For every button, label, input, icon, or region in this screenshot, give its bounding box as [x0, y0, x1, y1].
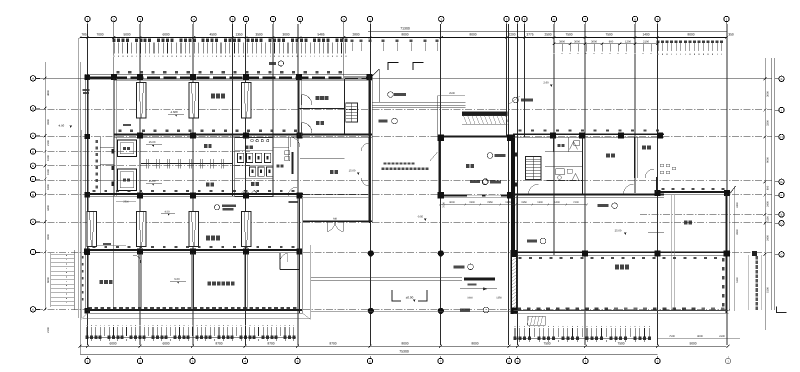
corridor arrows and marks — [146, 144, 162, 146]
svg-text:8000: 8000 — [401, 341, 408, 345]
svg-text:2100: 2100 — [47, 327, 50, 333]
left dimension boundary line — [79, 62, 81, 354]
grid axis vertical (partial) x=113.75 — [113, 24, 115, 310]
top dimension line — [80, 37, 727, 39]
column on dim line — [752, 251, 757, 256]
column at west colonnade y=252.4 — [84, 250, 90, 255]
svg-text:9000: 9000 — [689, 341, 696, 345]
conveyor rail — [141, 163, 233, 165]
stair B — [526, 157, 542, 181]
hall1 level mark — [168, 114, 184, 116]
svg-text:1500: 1500 — [47, 169, 50, 175]
annotation in hall2 — [214, 205, 219, 210]
grid axis vertical x=508.5 — [508, 24, 510, 345]
svg-text:H: H — [32, 220, 34, 224]
column — [550, 133, 556, 139]
door swing marks on corridor wall — [241, 190, 247, 193]
svg-text:1100: 1100 — [767, 216, 770, 222]
svg-text:6000: 6000 — [162, 32, 169, 36]
svg-text:2100: 2100 — [719, 335, 725, 338]
door arc — [290, 137, 300, 147]
plaza walkway lines — [311, 277, 462, 279]
svg-text:E: E — [781, 213, 783, 217]
CI marks above mid wall — [519, 129, 522, 131]
detail mark — [278, 61, 283, 66]
svg-text:25.00: 25.00 — [615, 230, 622, 233]
svg-text:7500: 7500 — [565, 32, 572, 36]
grid axis vertical x=657.5 — [657, 24, 659, 345]
NE chamfer of C — [729, 186, 736, 195]
storage south wall — [513, 310, 728, 312]
north wall columns — [111, 74, 117, 80]
svg-text:±0.00: ±0.00 — [406, 296, 414, 300]
room label fuwutai — [316, 96, 320, 100]
bottom grid bubbles row — [85, 358, 90, 363]
room label — [123, 178, 126, 181]
svg-text:9000: 9000 — [697, 335, 703, 338]
svg-text:2400: 2400 — [736, 202, 739, 208]
grid axis vertical x=727 — [726, 24, 728, 345]
column — [724, 190, 730, 196]
left secondary vertical line — [78, 38, 80, 318]
mid section north wall — [513, 133, 664, 135]
grid axis horizontal y=180.0 — [36, 179, 772, 181]
room label shoufajian — [99, 280, 103, 284]
pavilion north wall — [438, 136, 513, 138]
dim row below mid section — [440, 204, 587, 206]
grid axis vertical x=585 — [584, 24, 586, 345]
top grid bubbles row — [85, 16, 90, 21]
grid axis horizontal y=78.5 — [36, 78, 772, 80]
room label small — [558, 144, 561, 147]
door arcs mid — [529, 184, 539, 194]
upper room label — [684, 221, 687, 225]
svg-text:M8: M8 — [333, 218, 337, 221]
svg-text:900: 900 — [609, 41, 614, 44]
column — [618, 133, 624, 139]
svg-text:8000: 8000 — [401, 32, 408, 36]
grid axis vertical x=87.5 — [87, 24, 89, 345]
svg-text:7500: 7500 — [617, 341, 624, 345]
annotation near link — [388, 92, 394, 98]
bottom overall dimension line 75300 — [80, 353, 658, 355]
svg-text:2100: 2100 — [573, 201, 579, 204]
toilet block — [235, 138, 273, 197]
top sub dimension line — [554, 43, 658, 45]
column — [724, 250, 730, 256]
grid axis horizontal y=252.7 — [36, 252, 772, 254]
svg-text:6000: 6000 — [162, 341, 169, 345]
CI row below storage top wall — [519, 257, 522, 259]
svg-text:3000: 3000 — [591, 41, 597, 44]
grid axis vertical x=193 — [192, 24, 194, 345]
pilaster — [515, 183, 517, 187]
CI marks above corridor wall — [119, 130, 122, 132]
grid axis vertical x=370.5 — [370, 24, 372, 345]
vent circles above stalls — [251, 139, 254, 142]
window sill marks on south wall — [88, 307, 92, 309]
svg-text:3000: 3000 — [449, 201, 455, 204]
pavilion corner columns — [437, 134, 444, 141]
WC label F — [245, 145, 248, 149]
svg-text:3500: 3500 — [255, 32, 262, 36]
column — [190, 248, 196, 254]
svg-text:2400: 2400 — [767, 235, 770, 241]
leader annotation two rows — [384, 162, 387, 164]
ramp hatch below — [528, 316, 546, 325]
column at west colonnade y=77.3 — [84, 75, 90, 80]
svg-text:2800: 2800 — [352, 32, 359, 36]
svg-text:K: K — [781, 77, 783, 81]
bottom dimension comb (right) — [514, 326, 517, 327]
dim 2000 in hall1 — [123, 124, 131, 126]
colonnade west wall — [85, 74, 87, 313]
building A south wall — [86, 309, 303, 311]
hall2 south wall y251.3 — [86, 249, 303, 251]
corridor label — [206, 183, 210, 187]
grid axis vertical (partial) x=343.75 — [343, 24, 345, 76]
column at west colonnade y=194.6 — [84, 192, 90, 197]
mid section south wall — [513, 194, 664, 196]
svg-text:7500: 7500 — [605, 32, 612, 36]
dim 2000 label — [103, 243, 111, 245]
column — [243, 133, 249, 139]
svg-text:2200: 2200 — [508, 32, 515, 36]
service band partitions — [138, 253, 140, 310]
room label zhiban — [316, 121, 320, 125]
NE chamfer corner — [373, 69, 380, 76]
column — [654, 190, 660, 196]
svg-text:3300: 3300 — [767, 120, 770, 126]
corridor north wall y135.7 — [114, 133, 373, 135]
svg-text:5485: 5485 — [317, 32, 324, 36]
pavilion south wall with door gaps — [438, 194, 467, 196]
svg-text:3300: 3300 — [47, 234, 50, 240]
bldg C west wall upper — [656, 177, 658, 192]
grid axis horizontal y=222.5 — [36, 222, 772, 224]
west annotation of storage — [468, 264, 474, 270]
storage west wall x513-517 — [510, 257, 512, 314]
grid axis horizontal y=214.4 — [640, 213, 772, 215]
svg-text:1400: 1400 — [554, 201, 560, 204]
hall2 label — [206, 236, 210, 241]
svg-text:4.50: 4.50 — [164, 210, 170, 213]
svg-text:8000: 8000 — [687, 32, 694, 36]
canopy slab — [462, 111, 508, 115]
right vertical dimension line — [764, 58, 766, 330]
svg-text:F: F — [32, 177, 34, 181]
svg-text:D: D — [32, 150, 34, 154]
column — [582, 250, 588, 256]
top overall dimension line 71300 — [368, 30, 727, 32]
storage small label — [642, 145, 646, 149]
svg-text:71300: 71300 — [400, 26, 410, 30]
svg-text:6600: 6600 — [47, 277, 50, 283]
annotation circles mid — [483, 179, 489, 185]
svg-text:5000: 5000 — [123, 32, 130, 36]
svg-text:5100: 5100 — [767, 287, 770, 293]
shaft rooms — [545, 151, 582, 153]
column at west colonnade y=310.8 — [84, 308, 90, 313]
interior wall x114 — [113, 78, 115, 196]
svg-text:785: 785 — [81, 32, 87, 36]
CI marks above C north wall — [662, 188, 665, 190]
west rooms — [118, 140, 137, 157]
building A east wall upper — [368, 76, 370, 223]
svg-text:9000: 9000 — [767, 157, 770, 163]
grid axis vertical (partial) x=524.5 — [524, 24, 526, 137]
grid axis horizontal y=309.6 — [36, 309, 730, 311]
left vertical dimension line — [44, 62, 46, 310]
grid axis horizontal y=151.5 — [36, 151, 250, 153]
svg-text:8000: 8000 — [471, 341, 478, 345]
door arc service — [133, 255, 141, 263]
grid axis vertical (partial) x=232.5 — [232, 24, 234, 196]
svg-text:1940: 1940 — [467, 297, 473, 300]
column SW of storage — [511, 308, 518, 315]
CI window marks above north wall — [116, 71, 119, 73]
column — [243, 248, 249, 254]
top window dimension comb (right) — [657, 41, 660, 44]
column — [654, 250, 660, 256]
hall2 level mark — [161, 213, 175, 215]
top dimension ticks (mid) — [351, 43, 353, 51]
column — [84, 248, 90, 254]
svg-text:2400: 2400 — [767, 201, 770, 207]
grid axis vertical (partial) x=273 — [272, 24, 274, 196]
corridor line across door hall — [303, 193, 369, 195]
grid axis vertical x=517.5 — [517, 24, 519, 345]
svg-text:K: K — [32, 308, 34, 312]
svg-text:7000: 7000 — [96, 32, 103, 36]
grid axis horizontal y=136.6 — [36, 136, 772, 138]
CI marks above hall2 wall — [93, 190, 96, 192]
door arcs on east wall — [361, 143, 369, 151]
top window dimension comb (left) — [113, 38, 116, 42]
svg-text:6000: 6000 — [109, 341, 116, 345]
corridor south wall y195.5 — [88, 193, 303, 195]
column — [137, 248, 143, 254]
grid axis vertical x=440.5 — [440, 24, 442, 345]
column — [137, 133, 143, 139]
grid axis vertical x=245.5 — [245, 24, 247, 345]
svg-text:15.00: 15.00 — [149, 180, 156, 183]
bldg C north wall — [656, 191, 729, 193]
door arcs on room wall x299 — [302, 95, 313, 106]
grid axis vertical x=140 — [139, 24, 141, 345]
terrace edge below — [83, 317, 311, 319]
svg-text:8000: 8000 — [469, 32, 476, 36]
svg-text:4.500: 4.500 — [171, 110, 178, 114]
svg-text:1200: 1200 — [625, 41, 631, 44]
grid axis horizontal y=194.8 — [36, 194, 772, 196]
grid axis vertical (partial) x=635 — [634, 24, 636, 193]
svg-text:3900: 3900 — [559, 41, 565, 44]
pavilion label — [466, 164, 470, 168]
window in north wall — [343, 76, 366, 78]
svg-text:F: F — [781, 193, 783, 197]
svg-text:2500: 2500 — [449, 92, 455, 95]
dim 1300 right — [289, 201, 298, 203]
svg-text:5.00: 5.00 — [174, 278, 180, 281]
svg-text:8700: 8700 — [329, 341, 336, 345]
grid axis horizontal y=165.8 — [36, 165, 250, 167]
right grid bubbles column — [779, 76, 784, 81]
svg-text:A: A — [32, 77, 34, 81]
svg-text:350: 350 — [728, 32, 734, 36]
stall dim tick column — [96, 140, 98, 143]
canopy annotation — [513, 97, 519, 103]
svg-text:2500: 2500 — [544, 32, 551, 36]
column — [243, 192, 249, 198]
svg-text:1305: 1305 — [505, 201, 511, 204]
column — [511, 250, 517, 256]
column — [137, 192, 143, 198]
right border double line — [770, 58, 772, 310]
column — [297, 133, 303, 139]
grid axis vertical (partial) x=506.5 — [506, 24, 508, 137]
svg-text:3300: 3300 — [47, 119, 50, 125]
expansion joint lines — [671, 195, 673, 310]
svg-text:15.00: 15.00 — [149, 141, 156, 144]
grid axis horizontal y=109.6 — [36, 109, 772, 111]
svg-text:3000: 3000 — [574, 41, 580, 44]
right rotated annotation text — [755, 256, 758, 260]
CI marks above south wall — [93, 246, 96, 248]
reception rooms walls — [298, 78, 300, 137]
svg-text:G: G — [32, 193, 34, 197]
stair A — [346, 103, 358, 122]
svg-text:3400: 3400 — [47, 205, 50, 211]
pavilion west wall — [438, 137, 440, 196]
column — [190, 133, 196, 139]
svg-text:1350: 1350 — [496, 297, 502, 300]
svg-text:2100: 2100 — [47, 140, 50, 146]
round columns — [368, 250, 374, 256]
hall2 window piers — [87, 212, 96, 247]
column — [657, 133, 663, 139]
pilaster — [515, 153, 517, 157]
CI ticks inside east wall — [722, 258, 725, 261]
building A north wall — [88, 74, 372, 76]
svg-text:3000: 3000 — [767, 91, 770, 97]
svg-text:1400: 1400 — [642, 32, 649, 36]
svg-text:4500: 4500 — [209, 32, 216, 36]
svg-text:-4.50: -4.50 — [58, 123, 65, 127]
tick column left dim strip — [81, 256, 83, 259]
partition walls mid section — [582, 137, 584, 194]
bottom dimension line — [80, 345, 727, 347]
svg-text:75300: 75300 — [399, 349, 409, 353]
south wall of door hall — [303, 220, 372, 222]
left ramp hatch strip — [74, 250, 76, 310]
room label — [123, 147, 126, 150]
ramp dots — [66, 254, 67, 257]
level L-marks — [392, 290, 401, 301]
dim vline x437.8 — [437, 96, 439, 136]
svg-text:1500: 1500 — [47, 155, 50, 161]
grid axis vertical x=298 — [297, 24, 299, 345]
double door leaf — [326, 222, 328, 232]
door hall label — [330, 170, 334, 174]
hall1 label — [211, 94, 215, 99]
small fixtures right — [660, 164, 664, 167]
left grid bubbles column — [30, 76, 35, 81]
svg-text:7500: 7500 — [669, 335, 675, 338]
west porch partitions — [99, 137, 101, 194]
svg-text:2500: 2500 — [123, 200, 129, 203]
rooms east of toilets — [288, 137, 290, 160]
svg-text:7500: 7500 — [543, 341, 550, 345]
bottom right corner mark — [777, 307, 787, 313]
svg-text:4800: 4800 — [47, 90, 50, 96]
svg-text:2100: 2100 — [643, 41, 649, 44]
bottom dimension comb (left) — [86, 325, 89, 326]
svg-text:C: C — [780, 253, 782, 257]
svg-text:3000: 3000 — [282, 32, 289, 36]
column — [297, 192, 303, 198]
svg-text:1500: 1500 — [469, 201, 475, 204]
svg-text:B: B — [32, 107, 34, 111]
svg-text:3775: 3775 — [526, 32, 533, 36]
svg-text:-0.05: -0.05 — [417, 216, 424, 219]
svg-text:1950: 1950 — [521, 201, 527, 204]
column — [297, 248, 303, 254]
storage top wall y253.5 — [514, 251, 729, 253]
urinal stalls — [238, 153, 244, 162]
svg-text:C: C — [32, 134, 34, 138]
storage label — [615, 265, 619, 270]
svg-text:2.60: 2.60 — [543, 82, 549, 85]
svg-text:2350: 2350 — [487, 201, 493, 204]
hall1 window piers — [137, 83, 146, 119]
svg-text:1800: 1800 — [47, 184, 50, 190]
svg-text:D: D — [780, 222, 782, 226]
svg-text:E: E — [32, 164, 34, 168]
link walkway triple lines — [373, 101, 466, 103]
pavilion east wall — [511, 135, 515, 257]
svg-text:15.00: 15.00 — [349, 170, 356, 173]
svg-text:8700: 8700 — [215, 341, 222, 345]
svg-text:1350: 1350 — [235, 32, 242, 36]
svg-text:2600: 2600 — [736, 229, 739, 235]
svg-text:8700: 8700 — [267, 341, 274, 345]
svg-text:H: H — [780, 135, 782, 139]
grid axis vertical (partial) x=554 — [553, 24, 555, 255]
corner symbols above — [388, 63, 399, 71]
room label service center — [207, 281, 211, 285]
svg-text:7000: 7000 — [443, 202, 446, 208]
WC label M — [251, 182, 254, 186]
column at west colonnade y=136.5 — [84, 134, 90, 139]
svg-text:5100: 5100 — [736, 277, 739, 283]
window marks on storage south wall — [517, 307, 521, 310]
bldg C east wall — [725, 195, 727, 313]
column — [579, 133, 585, 139]
svg-text:G: G — [780, 180, 782, 184]
building A east-lower wall — [298, 197, 300, 313]
svg-text:600: 600 — [767, 185, 770, 190]
svg-text:1300: 1300 — [537, 201, 543, 204]
plaza south line — [311, 311, 513, 313]
small bottom-right dims — [658, 338, 740, 340]
SW room in service band — [280, 269, 299, 271]
column — [190, 192, 196, 198]
corridor label 2 — [204, 144, 207, 148]
pump room label — [606, 153, 610, 157]
